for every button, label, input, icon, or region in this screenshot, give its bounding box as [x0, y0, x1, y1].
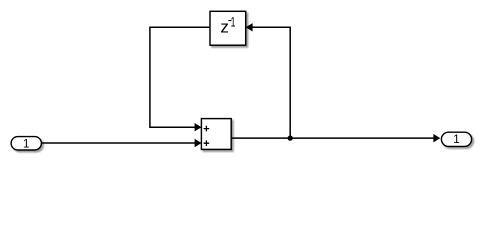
svg-text:1: 1: [231, 15, 236, 31]
svg-text:1: 1: [23, 138, 29, 150]
svg-text:1: 1: [453, 134, 459, 146]
